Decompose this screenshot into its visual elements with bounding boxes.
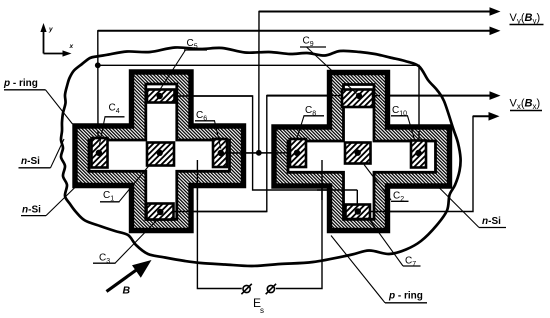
contact C6: [213, 139, 227, 167]
contact C8: [290, 139, 306, 167]
n-Si blob outline: [61, 47, 461, 266]
label C7: [369, 219, 421, 268]
wire C6 - junction - C8: [221, 152, 297, 154]
arrow Vy bottom: [490, 27, 501, 36]
re-draw wires crossing cross bodies (over hatch): [98, 96, 420, 212]
contact C1 (center left cross): [147, 143, 174, 166]
junction dot center: [256, 150, 262, 156]
left cross inner n-Si white region: [89, 84, 230, 219]
svg-text:p - ring: p - ring: [3, 78, 38, 89]
arrow Vx bottom: [489, 112, 500, 121]
label C6: [195, 110, 221, 149]
wire C4-C10 (wire-B): [98, 65, 419, 153]
svg-text:p - ring: p - ring: [388, 291, 423, 302]
phase symbol right: [266, 284, 276, 294]
svg-text:n-Si: n-Si: [22, 205, 41, 216]
label p-ring left: [3, 78, 73, 124]
label C1: [100, 162, 152, 203]
wire Vx- net: C5 right, down, right, down to C7; C7 right, up to arrow: [160, 96, 358, 212]
svg-text:s: s: [260, 306, 264, 315]
label Vy(By): [510, 12, 544, 26]
contact C3: [147, 204, 174, 220]
B field arrow: [107, 260, 152, 297]
svg-text:n-Si: n-Si: [21, 156, 40, 167]
contact C10: [411, 141, 426, 168]
right cross inner n-Si white region: [288, 85, 436, 220]
arrow Vx top: [490, 91, 501, 100]
label n-Si right: [436, 184, 507, 228]
label n-Si left upper: [19, 139, 65, 168]
label p-ring right: [331, 236, 427, 303]
axes: [44, 29, 66, 54]
label C8: [297, 105, 325, 140]
right cross outer outline with p-ring hatch fill: [274, 73, 450, 231]
label C5: [160, 38, 207, 90]
arrow Vy top: [490, 7, 501, 16]
label C4: [99, 103, 125, 148]
left cross outer outline with p-ring hatch fill: [75, 72, 244, 231]
wire Es bias: C1 right-down to phase box, C2 left-down: [160, 154, 242, 289]
label C3: [93, 220, 158, 266]
svg-text:Vy(By): Vy(By): [510, 12, 541, 26]
label Vx(Bx): [510, 98, 543, 112]
contact C9: [342, 90, 373, 108]
label C9: [300, 36, 357, 94]
contact C4: [92, 138, 108, 168]
contact C5: [147, 90, 175, 103]
svg-text:n-Si: n-Si: [482, 216, 501, 227]
svg-text:Vx(Bx): Vx(Bx): [510, 98, 541, 112]
svg-text:B: B: [123, 285, 131, 297]
contact C7: [346, 205, 371, 220]
svg-text:y: y: [48, 26, 53, 33]
wire Vy- net: C4 up, corner right to arrow: [98, 31, 494, 153]
wire Vy+ net: vertical from center junction up, horizontal to arrow: [259, 12, 494, 153]
label C2: [364, 165, 409, 204]
label n-Si left lower: [21, 182, 81, 216]
label C10: [391, 105, 415, 140]
contact C2 (center right cross): [345, 143, 371, 164]
svg-text:x: x: [69, 43, 74, 50]
phase symbol left: [241, 284, 251, 294]
junction dot at C4 wire: [95, 62, 101, 68]
wire Vx+ net: C3 right, up, right through C9 to arrow: [160, 96, 494, 212]
